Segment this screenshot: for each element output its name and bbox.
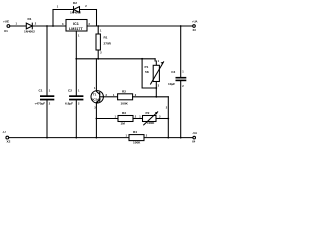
capacitor C2	[69, 95, 83, 97]
svg-text:1: 1	[158, 59, 160, 63]
junction P1 loop	[141, 58, 143, 60]
svg-text:+UA: +UA	[192, 20, 198, 24]
svg-text:C1: C1	[39, 89, 43, 93]
svg-text:5K: 5K	[145, 70, 150, 74]
svg-text:100K: 100K	[133, 141, 141, 145]
svg-text:6.8µF: 6.8µF	[65, 102, 73, 106]
svg-text:D2: D2	[73, 1, 77, 5]
svg-text:1: 1	[94, 86, 96, 90]
junction P1 bottom	[155, 96, 157, 98]
svg-text:X3: X3	[193, 28, 197, 32]
svg-text:2: 2	[135, 115, 137, 119]
svg-text:1: 1	[78, 34, 80, 38]
wire D1 to IC1	[32, 25, 66, 27]
svg-text:1: 1	[49, 89, 51, 93]
junction step row A	[167, 118, 169, 120]
junction C3 bottom	[180, 137, 182, 139]
svg-text:270R: 270R	[104, 42, 112, 46]
svg-text:2: 2	[78, 101, 80, 105]
potentiometer P2	[143, 116, 157, 122]
svg-text:X2: X2	[7, 139, 11, 143]
potentiometer P1	[154, 59, 156, 61]
junction R1 bottom	[97, 58, 99, 60]
op IC1 LM317T box	[66, 20, 87, 32]
junction T1 emitter bottom	[96, 137, 98, 139]
wire ADJ rail	[76, 58, 155, 60]
resistor R3	[118, 116, 133, 122]
wire IC1 adj pin down to C2	[75, 31, 77, 95]
svg-text:100K: 100K	[121, 102, 129, 106]
svg-text:BC547: BC547	[91, 97, 101, 101]
svg-text:P1: P1	[145, 65, 149, 69]
svg-text:10µF: 10µF	[168, 82, 175, 86]
svg-text:IC1: IC1	[73, 22, 79, 26]
svg-text:1: 1	[100, 29, 102, 33]
junction P1 loop bottom	[155, 87, 157, 89]
svg-text:1: 1	[115, 115, 117, 119]
wire output rail	[87, 25, 193, 27]
wire T1 base to R2	[103, 96, 117, 98]
svg-text:T1: T1	[93, 92, 97, 96]
junction C2 bottom	[75, 137, 77, 139]
svg-text:1: 1	[126, 134, 128, 138]
svg-text:100K: 100K	[147, 121, 155, 125]
wire input node to D1	[10, 25, 27, 27]
junction R1 top	[97, 25, 99, 27]
wire bottom rail right of R4	[144, 137, 193, 139]
svg-text:D1: D1	[28, 17, 32, 21]
wire step down to row A and rail	[167, 97, 169, 138]
resistor R2	[118, 94, 133, 100]
node X1 input terminal	[7, 25, 10, 28]
svg-text:X4: X4	[192, 139, 196, 143]
diode D1	[26, 23, 32, 29]
resistor R4 in rail	[129, 135, 144, 141]
svg-text:1: 1	[57, 4, 59, 8]
svg-text:+470µF: +470µF	[35, 102, 46, 106]
svg-text:1M: 1M	[121, 121, 126, 125]
svg-text:C3: C3	[171, 70, 175, 74]
wire bottom rail left of R4	[9, 137, 129, 139]
wire D2 branch left vertical	[52, 10, 54, 27]
svg-text:R1: R1	[104, 36, 108, 40]
svg-text:3: 3	[158, 83, 160, 87]
svg-text:2: 2	[85, 4, 87, 8]
svg-text:2: 2	[146, 134, 148, 138]
svg-text:R3: R3	[122, 111, 126, 115]
svg-text:X1: X1	[4, 29, 8, 33]
svg-text:-U: -U	[2, 130, 6, 134]
svg-text:R2: R2	[122, 90, 126, 94]
svg-text:2: 2	[135, 93, 137, 97]
junction R3 left	[96, 118, 98, 120]
wire P1 loop	[142, 59, 156, 88]
svg-text:2: 2	[35, 22, 37, 26]
wire R2 to P1 bottom node	[133, 96, 169, 98]
svg-text:2: 2	[49, 101, 51, 105]
svg-text:1: 1	[16, 22, 18, 26]
junction C3 top	[180, 25, 182, 27]
capacitor C1 electrolytic	[46, 26, 48, 95]
transistor T1 BC547	[95, 59, 97, 91]
svg-text:1N4002: 1N4002	[70, 11, 81, 15]
resistor R1	[97, 26, 99, 34]
junction ADJ pin	[75, 58, 77, 60]
wire R3 to P2	[133, 118, 143, 120]
svg-text:2: 2	[166, 105, 168, 109]
junction step bottom	[167, 137, 169, 139]
node X2 ground terminal	[6, 136, 9, 139]
svg-text:C2: C2	[68, 89, 72, 93]
svg-text:1: 1	[139, 115, 141, 119]
svg-text:P2: P2	[146, 111, 150, 115]
svg-text:2: 2	[100, 51, 102, 55]
junction D2 branch	[52, 25, 54, 27]
svg-text:2: 2	[182, 84, 184, 88]
svg-text:-UA: -UA	[192, 131, 197, 135]
svg-text:+UE: +UE	[3, 19, 9, 23]
wire P2 right to step	[156, 118, 168, 120]
wire D2 branch top horizontal	[53, 9, 97, 11]
wire D2 branch right vertical	[96, 10, 98, 27]
diode D2	[74, 7, 80, 13]
svg-text:3: 3	[62, 22, 64, 26]
wire R3 row left	[96, 118, 118, 120]
node X3 output terminal	[193, 25, 196, 28]
junction cap C1 feed	[46, 25, 48, 27]
junction C1 bottom	[46, 137, 48, 139]
svg-text:2: 2	[89, 22, 91, 26]
svg-text:LM317T: LM317T	[69, 27, 83, 31]
svg-text:1: 1	[78, 89, 80, 93]
svg-text:1: 1	[182, 70, 184, 74]
svg-text:1: 1	[113, 93, 115, 97]
node X4 output minus terminal	[193, 136, 196, 139]
capacitor C3	[180, 26, 182, 77]
svg-text:R4: R4	[133, 130, 137, 134]
svg-text:1N4002: 1N4002	[24, 30, 35, 34]
